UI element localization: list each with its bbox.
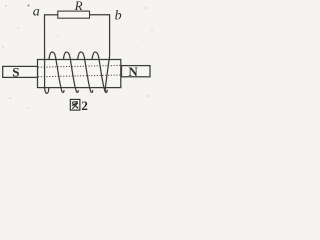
wire right lead from b down across core into last hook [105,15,109,93]
N pole magnet bar [122,66,151,77]
dashed core axis line upper [38,65,120,67]
background [0,0,156,114]
scan noise speckles [2,5,153,109]
svg-text:2: 2 [81,98,88,113]
dashed core axis line lower [38,75,120,77]
ink dot artifact top-left [27,4,29,6]
svg-text:b: b [115,9,122,24]
svg-text:N: N [128,64,138,79]
wire left lead from a down into first bottom loop [45,15,49,94]
wire a-to-resistor with corner down [45,14,58,16]
coil winding turn 1 [49,52,64,92]
S pole magnet bar [3,66,38,77]
coil winding turn 4 [92,52,107,92]
iron core body [38,60,121,88]
resistor R1 body [58,11,90,18]
caption 图2 : hand-drawn 图 glyph [70,99,80,110]
svg-text:a: a [33,5,40,20]
svg-text:S: S [12,64,19,79]
coil winding turn 2 [63,52,78,92]
wire resistor-to-b with corner down [90,14,110,16]
coil winding turn 3 [78,52,93,92]
